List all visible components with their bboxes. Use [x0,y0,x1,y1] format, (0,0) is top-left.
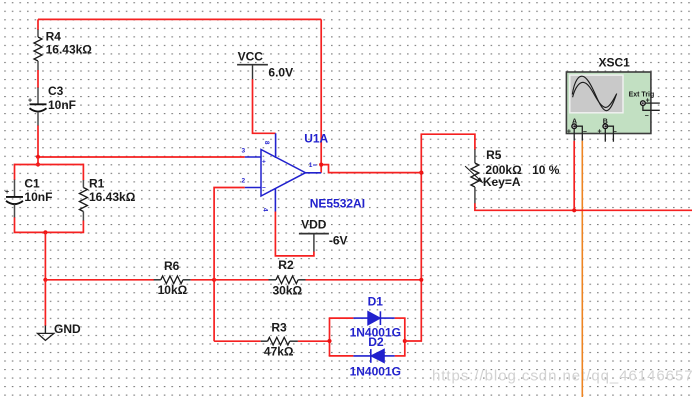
diode D1 [350,294,401,339]
svg-text:−: − [583,129,587,136]
wire diode box right edge [404,318,406,356]
wire scope channel A minus (orange) [581,141,583,397]
junction node diode box right [403,339,407,343]
svg-text:VCC: VCC [238,49,264,63]
svg-text:R5: R5 [486,148,502,162]
svg-text:Key=A: Key=A [483,175,521,189]
wire box right upper [82,164,84,181]
wire R6 to node [191,279,214,281]
junction node diode box left [327,339,331,343]
power VCC [237,49,293,79]
op-amp U1A [242,132,366,212]
wire R3 to diode box [298,340,330,342]
wire R4-C3 [37,70,39,88]
svg-text:GND: GND [54,322,81,336]
junction node box bottom [43,230,47,234]
wire diode bottom left [329,355,354,357]
svg-text:C3: C3 [48,84,64,98]
wire R6 row left [45,279,154,281]
resistor R6 [154,259,191,297]
wire short vertical to tank box [37,157,39,165]
svg-text:C1: C1 [24,177,40,191]
svg-text:4: 4 [262,208,269,212]
wire diode box left edge [329,318,331,356]
oscilloscope XSC1 [566,56,659,142]
capacitor C1 [5,177,52,219]
svg-text:16.43kΩ: 16.43kΩ [89,190,136,204]
junction node gnd row [43,278,47,282]
junction node box top [36,162,40,166]
svg-text:D2: D2 [368,335,384,349]
svg-text:47kΩ: 47kΩ [264,345,294,359]
wire box top edge [15,164,84,166]
svg-text:VDD: VDD [301,217,327,231]
resistor R1 [79,177,135,222]
wire scope channel A plus [573,141,575,211]
wire box left lower [14,217,16,233]
svg-text:R1: R1 [89,177,105,191]
svg-text:1N4001G: 1N4001G [350,365,401,379]
svg-text:R3: R3 [271,320,287,334]
svg-text:-6V: -6V [329,233,348,247]
svg-text:XSC1: XSC1 [599,56,631,70]
svg-text:D1: D1 [368,294,384,308]
capacitor C3 [28,84,76,126]
wire diode top right [395,317,406,319]
resistor R4 [34,30,92,71]
svg-text:−: − [645,113,649,120]
junction node output column mid [419,278,423,282]
wire down to ground [44,280,46,326]
wire R2 left [214,279,268,281]
resistor R3 [261,320,298,358]
junction node output [319,163,323,167]
svg-text:8: 8 [263,141,270,145]
svg-text:10kΩ: 10kΩ [158,283,188,297]
wire box right lower [82,221,84,234]
junction node scope tap [572,208,576,212]
junction node feedback [212,278,216,282]
wire box bottom edge [15,231,84,233]
wire inverting vertical [214,188,245,342]
resistor R2 [269,258,306,297]
svg-text:3: 3 [242,148,246,155]
svg-text:16.43kΩ: 16.43kΩ [46,43,93,57]
diode D2 [350,335,401,378]
wire top feedback horizontal [38,18,321,20]
svg-text:+: + [567,129,571,136]
wire noninverting feed [38,156,245,158]
svg-text:+: + [28,98,32,105]
svg-text:Ext Trig: Ext Trig [629,91,655,98]
potentiometer R5 [465,148,560,204]
wire box left upper [14,164,16,180]
svg-text:10nF: 10nF [24,190,52,204]
wire down from box bottom [44,232,46,279]
svg-text:R6: R6 [164,259,180,273]
wire R4 top lead [37,19,39,30]
svg-text:30kΩ: 30kΩ [273,283,303,297]
wire VCC to op-amp [253,79,276,133]
wire R5 bottom [475,203,692,210]
svg-text:−: − [262,185,266,192]
wire diode top left [329,317,354,319]
svg-text:6.0V: 6.0V [268,66,293,80]
junction node output column top [419,171,423,175]
svg-text:10nF: 10nF [48,98,76,112]
power VDD [299,217,348,252]
wire top feedback vertical to output node [320,19,322,172]
svg-text:U1A: U1A [304,132,328,146]
svg-text:https://blog.csdn.net/qq_46146: https://blog.csdn.net/qq_46146657 [432,368,692,385]
wire op-amp output row [321,165,421,173]
wire C3 to node [37,126,39,158]
svg-text:R4: R4 [46,30,62,44]
wire R2 right [306,279,422,281]
wire VDD to op-amp [275,212,314,256]
svg-text:+: + [5,189,9,196]
svg-text:10 %: 10 % [532,163,560,177]
svg-text:2: 2 [242,177,246,184]
svg-text:1: 1 [309,162,313,169]
svg-text:+: + [262,159,266,166]
svg-text:+: + [598,129,602,136]
wire diode bottom right [395,355,406,357]
junction node at R4/C3 to +input [36,155,40,159]
ground GND [38,322,82,340]
wire R3 feed [214,340,261,342]
svg-text:NE5532AI: NE5532AI [310,196,365,210]
svg-text:R2: R2 [278,258,294,272]
wire diode out to right vertical [405,134,475,341]
